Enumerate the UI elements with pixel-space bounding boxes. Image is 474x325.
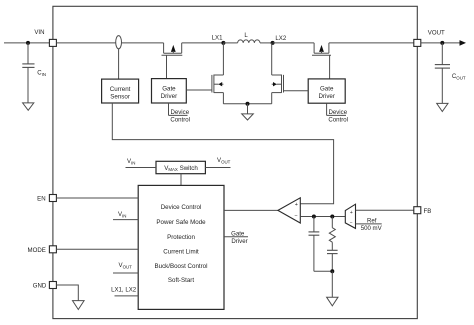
wire: comp bottom <box>314 270 332 272</box>
svg-text:Soft-Start: Soft-Start <box>168 277 194 284</box>
pin VIN <box>49 39 56 46</box>
net stub: Device Control (GD1) <box>169 103 188 115</box>
body arrow Q4 <box>319 45 324 52</box>
svg-text:Current: Current <box>110 86 131 93</box>
svg-text:+: + <box>350 210 353 216</box>
wire: Q2 gate to GD1 <box>186 89 212 91</box>
wire: current sensor output <box>112 103 333 204</box>
wire: Q1 gate to gate driver 1 <box>166 55 168 78</box>
svg-text:EN: EN <box>37 195 45 202</box>
net stub: LX1, LX2 input label <box>115 295 139 297</box>
wire: COUT bottom <box>441 68 443 103</box>
wire: Vmax switch to control block <box>180 174 182 186</box>
block: device control (main) <box>138 185 224 309</box>
wire: LX1 down <box>222 43 224 75</box>
svg-text:Device: Device <box>170 109 189 116</box>
net stub: Gate Driver output label <box>224 236 248 238</box>
svg-text:500 mV: 500 mV <box>361 225 383 232</box>
reference buffer U2 <box>345 204 355 228</box>
wire: rail Q1 to LX1 <box>182 42 224 44</box>
wire: Q2 source down <box>222 93 224 104</box>
svg-text:GND: GND <box>33 283 47 290</box>
capacitor CIN <box>22 64 34 68</box>
wire: error amp output to control block <box>224 209 278 211</box>
svg-text:−: − <box>350 220 353 226</box>
svg-text:Gate: Gate <box>320 85 334 92</box>
pin EN <box>49 195 56 202</box>
transistor Q1 (buck high-side FET) <box>162 43 183 55</box>
net stub: Ref 500 mV <box>356 223 382 225</box>
svg-text:+: + <box>295 202 298 208</box>
node: source junction <box>246 102 250 106</box>
ground (CIN) <box>23 103 34 110</box>
pin GND <box>49 282 56 289</box>
transistor Q4 (boost high-side FET) <box>312 43 331 55</box>
wire: comp to ground <box>331 271 333 297</box>
wire: EN to control block <box>56 197 138 199</box>
svg-text:Sensor: Sensor <box>110 93 130 100</box>
inductor L <box>238 40 260 43</box>
svg-text:VOUT: VOUT <box>428 29 445 36</box>
wire: FB to reference buffer <box>356 209 415 211</box>
pin VOUT <box>414 39 421 46</box>
block: Gate Driver 2 <box>308 79 345 103</box>
node: COUT tap <box>440 41 444 45</box>
wire: LX2 to Q4 <box>273 42 315 44</box>
capacitor C1 (comp left branch) <box>313 217 315 232</box>
wire: LX2 down <box>271 43 273 75</box>
wire: to mid ground <box>247 104 249 114</box>
wire: VIN rail to current probe <box>56 42 115 44</box>
wire: probe to current sensor <box>118 49 120 79</box>
svg-text:MODE: MODE <box>28 247 46 254</box>
wire: rail probe to Q1 <box>122 42 164 44</box>
block: Gate Driver 1 <box>152 79 187 103</box>
node: comp bottom junction <box>330 269 334 273</box>
op-amp U1 (error amplifier) <box>278 198 300 223</box>
svg-text:Device Control: Device Control <box>161 204 202 211</box>
wire: COUT top <box>441 43 443 65</box>
node: CIN tap <box>26 41 30 45</box>
svg-text:FB: FB <box>424 208 432 215</box>
net stub: Device Control (GD2) <box>327 103 346 115</box>
svg-text:Power Safe Mode: Power Safe Mode <box>156 219 206 226</box>
wire: NMOS source rail <box>223 103 271 105</box>
wire: rail Q4 to VOUT pin <box>329 42 414 44</box>
block: Current Sensor <box>102 79 139 103</box>
svg-text:LX1, LX2: LX1, LX2 <box>111 287 137 294</box>
wire: LX1 to inductor <box>223 42 237 44</box>
svg-text:Control: Control <box>328 117 348 124</box>
svg-text:Gate: Gate <box>231 230 245 237</box>
svg-text:Driver: Driver <box>318 93 335 100</box>
svg-text:Ref: Ref <box>367 218 377 225</box>
capacitor COUT <box>435 65 450 69</box>
wire: Q3 gate to GD2 <box>284 90 309 92</box>
svg-text:Driver: Driver <box>161 93 178 100</box>
net stub: VOUT input label <box>113 272 138 274</box>
resistor R1 (comp right branch) <box>331 217 333 228</box>
IC boundary box <box>53 6 417 318</box>
wire: VIN rail left external <box>4 42 50 44</box>
node LX2 <box>271 41 275 45</box>
net stub: VIN input label <box>113 219 138 221</box>
svg-text:Current Limit: Current Limit <box>163 249 199 256</box>
wire: inductor to LX2 <box>260 42 273 44</box>
wire: inverting input net <box>300 216 345 218</box>
svg-text:Protection: Protection <box>167 234 195 241</box>
current sense probe ellipse <box>116 36 122 49</box>
wire: Q3 source down <box>271 93 273 104</box>
wire: CIN top <box>27 43 29 64</box>
body arrow Q1 <box>171 45 176 52</box>
wire: VOUT external with arrow <box>421 42 461 44</box>
svg-text:VIN: VIN <box>34 29 44 36</box>
wire: MODE to control block <box>56 248 138 250</box>
ground (power stage) <box>242 114 254 120</box>
ground (GND pin) <box>73 301 85 310</box>
svg-text:LX2: LX2 <box>275 35 286 42</box>
block: Vmax Switch <box>156 161 205 173</box>
wire: GND to ground <box>56 285 78 301</box>
svg-text:Control: Control <box>170 117 190 124</box>
node LX1 <box>221 41 225 45</box>
ground (compensation) <box>327 297 338 306</box>
svg-text:Device: Device <box>328 109 347 116</box>
svg-text:Gate: Gate <box>162 86 176 93</box>
pin MODE <box>49 246 56 253</box>
svg-text:Driver: Driver <box>231 238 247 245</box>
pin FB <box>414 207 421 214</box>
net stub: VIN to Vmax switch <box>126 167 157 169</box>
svg-text:−: − <box>294 214 297 220</box>
wire: Q4 gate to gate driver 2 <box>329 55 331 79</box>
wire: CIN bottom <box>27 67 29 103</box>
ground (COUT) <box>437 103 448 111</box>
svg-text:LX1: LX1 <box>212 35 223 42</box>
svg-text:Buck/Boost Control: Buck/Boost Control <box>155 263 208 270</box>
node: comp junction 2 <box>330 215 334 219</box>
net stub: VOUT from Vmax switch <box>205 167 230 169</box>
capacitor C2 (comp right branch) <box>331 242 333 250</box>
node: comp junction 1 <box>312 215 316 219</box>
